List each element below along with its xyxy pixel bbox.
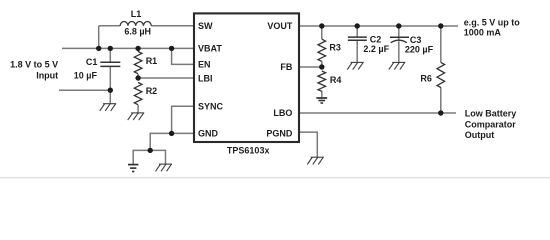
svg-text:220 µF: 220 µF [405,45,434,55]
svg-text:VOUT: VOUT [267,21,293,31]
svg-text:10 µF: 10 µF [74,71,98,81]
svg-text:LBI: LBI [198,73,213,83]
svg-text:C3: C3 [410,35,422,45]
svg-text:EN: EN [198,60,211,70]
svg-text:C2: C2 [370,34,382,44]
svg-text:e.g. 5 V up to: e.g. 5 V up to [464,18,521,28]
svg-text:FB: FB [280,62,292,72]
svg-text:SYNC: SYNC [198,101,224,111]
svg-text:R6: R6 [420,73,432,83]
svg-text:R2: R2 [146,86,158,96]
svg-text:SW: SW [198,21,213,31]
svg-text:2.2 µF: 2.2 µF [363,44,389,54]
svg-text:1000 mA: 1000 mA [464,28,502,38]
svg-text:TPS6103x: TPS6103x [227,146,270,156]
svg-text:Low Battery: Low Battery [465,109,517,119]
svg-text:PGND: PGND [266,129,293,139]
svg-text:GND: GND [198,129,219,139]
svg-text:VBAT: VBAT [198,44,222,54]
svg-text:LBO: LBO [273,108,292,118]
svg-text:Output: Output [465,130,495,140]
svg-text:R3: R3 [329,42,341,52]
svg-text:1.8 V to 5 V: 1.8 V to 5 V [10,59,58,69]
svg-text:Comparator: Comparator [465,119,517,129]
svg-text:C1: C1 [86,57,98,67]
svg-text:R1: R1 [146,56,158,66]
svg-text:L1: L1 [131,9,142,19]
svg-text:Input: Input [36,71,58,81]
svg-text:6.8 µH: 6.8 µH [124,27,151,37]
svg-text:R4: R4 [330,75,342,85]
